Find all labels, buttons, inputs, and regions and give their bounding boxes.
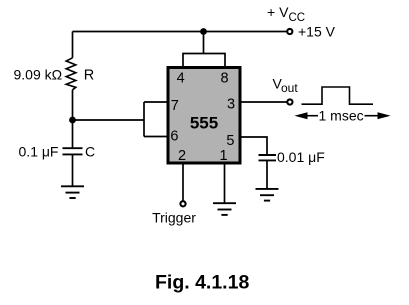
svg-text:Trigger: Trigger xyxy=(152,210,196,226)
terminal Vout open circle xyxy=(287,99,292,104)
capacitor 0.01 uF plates xyxy=(259,155,277,160)
svg-text:+15 V: +15 V xyxy=(298,24,336,40)
node VCC junction dot xyxy=(200,28,207,35)
ground below 0.01uF xyxy=(256,189,279,201)
wire junction to pins 6-7 bracket xyxy=(73,119,145,121)
svg-text:+ V: + V xyxy=(267,4,289,20)
svg-text:C: C xyxy=(85,144,95,160)
wire junction to capacitor C xyxy=(72,120,74,148)
resistor R zigzag xyxy=(66,58,76,90)
capacitor C plates xyxy=(63,148,83,154)
ground below pin 1 xyxy=(213,203,236,215)
svg-text:6: 6 xyxy=(170,128,178,144)
svg-text:1 msec: 1 msec xyxy=(319,108,364,124)
svg-text:Fig. 4.1.18: Fig. 4.1.18 xyxy=(155,272,249,294)
wire resistor bottom to junction xyxy=(72,90,74,120)
svg-text:8: 8 xyxy=(221,71,229,87)
ground below C xyxy=(61,186,84,198)
IC U1 555 timer body xyxy=(168,68,240,164)
svg-text:5: 5 xyxy=(226,133,234,149)
svg-text:2: 2 xyxy=(178,148,186,164)
svg-text:3: 3 xyxy=(227,97,235,113)
wire to pin 7 xyxy=(144,101,167,103)
wire to pin 6 xyxy=(144,136,167,138)
svg-text:4: 4 xyxy=(177,71,185,87)
wire pin 2 to Trigger terminal xyxy=(182,165,184,201)
svg-text:0.01 μF: 0.01 μF xyxy=(277,149,325,165)
svg-text:1: 1 xyxy=(220,148,228,164)
waveform pulse xyxy=(302,87,374,104)
terminal Trigger open circle xyxy=(180,201,185,206)
svg-text:9.09 kΩ: 9.09 kΩ xyxy=(14,67,63,83)
svg-text:out: out xyxy=(281,81,298,95)
svg-text:0.1 μF: 0.1 μF xyxy=(19,144,59,160)
wire capacitor 0.01uF to ground xyxy=(266,160,268,189)
terminal +15 V open circle xyxy=(287,29,292,34)
wire bracket vertical pins 7-6 xyxy=(143,102,145,137)
svg-text:CC: CC xyxy=(289,12,306,24)
svg-text:R: R xyxy=(84,68,94,84)
node junction dot R/C xyxy=(69,117,76,124)
wire VCC dot down to pins 4-8 bracket xyxy=(203,32,205,54)
wire VCC rail to resistor top xyxy=(72,32,74,58)
wire bracket pins 4 and 8 xyxy=(183,54,225,67)
wire capacitor C to ground xyxy=(72,154,74,186)
arrow 1 msec right xyxy=(365,112,391,119)
wire pin 5 to capacitor xyxy=(242,137,268,155)
wire VCC top rail xyxy=(73,31,287,33)
arrow 1 msec left xyxy=(294,112,318,119)
svg-text:7: 7 xyxy=(171,98,179,114)
wire pin 3 to Vout terminal xyxy=(242,101,287,103)
wire pin 1 to ground xyxy=(224,165,226,204)
svg-text:555: 555 xyxy=(190,114,218,133)
